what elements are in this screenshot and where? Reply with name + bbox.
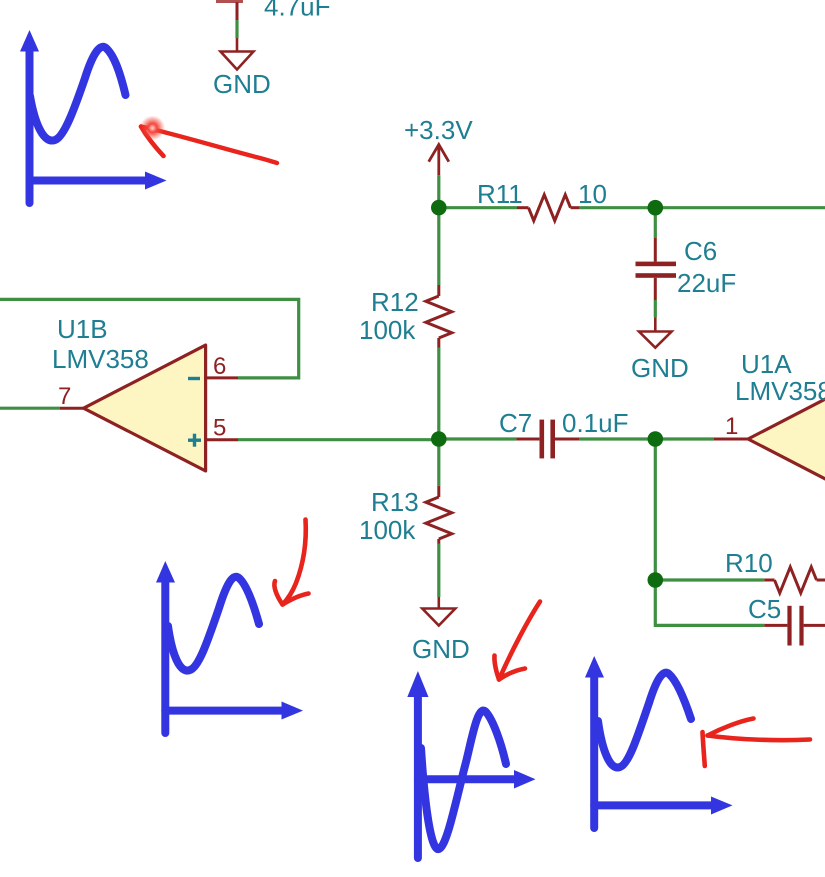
svg-text:R10: R10 [725,548,773,578]
capacitor C5 [764,606,825,646]
ground (top left) [221,38,254,70]
svg-text:10: 10 [578,179,607,209]
wire (pin5 to node C) [238,438,439,441]
svg-text:R13: R13 [371,487,419,517]
hand-drawn red arrow 4 [703,719,811,767]
hand-drawn red arrow 1 (laser pointer) [141,127,277,164]
svg-text:6: 6 [213,353,226,380]
wire (feedback: pin6 right then up) [0,299,299,378]
capacitor C? 4.7uF bottom plate (cut off at top) [216,0,243,3]
svg-text:4.7uF: 4.7uF [264,0,331,22]
svg-text:LMV358: LMV358 [735,376,825,406]
node E (junction at R10/C5 branch) [648,572,664,588]
wire (node D to U1A pin1) [655,437,714,440]
capacitor C7 [516,420,579,459]
ground (below R13) [422,597,455,626]
svg-text:7: 7 [58,383,71,410]
svg-text:+3.3V: +3.3V [404,115,473,145]
wire (node E down and right to C5) [655,580,764,625]
hand-drawn waveform 1 (top left) [30,47,151,203]
wire (node B down to C6) [654,208,657,238]
svg-text:GND: GND [412,634,470,664]
wire (cap to GND, top left) [236,2,239,20]
hand-drawn waveform 4 (bottom right) [594,673,714,828]
resistor R12 [426,285,452,348]
wire (R12 to node C) [437,348,440,440]
wire (R11 to node B) [579,206,655,209]
svg-text:R12: R12 [371,287,419,317]
svg-text:100k: 100k [359,315,416,345]
svg-text:R11: R11 [477,179,523,209]
node B (junction above C6) [648,200,664,216]
wire (node D down to node E) [654,439,657,580]
svg-text:0.1uF: 0.1uF [562,408,629,438]
minus symbol (pin 6 input) [188,377,200,380]
svg-text:LMV358: LMV358 [52,344,149,374]
svg-text:C5: C5 [748,594,781,624]
wire (C7 to node D) [579,437,655,440]
node D (junction left of U1A) [648,431,664,447]
wire (power to node A) [437,175,440,207]
node C (junction between R12/R13) [431,431,447,447]
hand-drawn waveform 2 (lower left) [165,577,286,733]
plus symbol (pin 5 input) [188,434,201,447]
node A (junction under +3.3V) [431,200,447,216]
svg-text:22uF: 22uF [677,268,736,298]
op-amp U1A (partially visible) [748,376,825,502]
wire (node A down to R12) [437,208,440,285]
svg-text:U1B: U1B [57,314,108,344]
resistor R11 [517,195,579,221]
svg-text:GND: GND [631,353,689,383]
wire (output pin7 to left edge) [0,407,60,410]
pin 6 stub [206,376,238,379]
pin 7 stub (output) [60,407,84,410]
svg-text:100k: 100k [359,515,416,545]
wire (node C down to R13) [437,439,440,486]
svg-text:1: 1 [725,413,738,440]
wire (node A to R11) [439,206,517,209]
hand-drawn red arrow 2 [274,520,308,605]
wire (node E to R10) [655,578,764,581]
svg-text:U1A: U1A [741,349,792,379]
wire (C6 to GND) [654,300,657,317]
wire (node B to right edge) [655,206,825,209]
hand-drawn waveform 3 (bottom middle) [418,690,516,858]
pin 5 stub [206,438,238,441]
svg-text:GND: GND [213,69,271,99]
capacitor C6 [636,238,677,300]
pin 1 stub (U1A input) [714,438,748,441]
wire (node C to C7) [439,437,517,440]
resistor R10 [764,567,825,593]
ground (below C6) [639,317,672,347]
resistor R13 [426,486,452,544]
op-amp U1B [84,345,206,471]
hand-drawn red arrow 3 [494,602,540,680]
svg-text:C6: C6 [684,236,717,266]
svg-text:C7: C7 [499,408,532,438]
wire (R13 to GND) [437,544,440,598]
svg-text:5: 5 [213,415,226,442]
